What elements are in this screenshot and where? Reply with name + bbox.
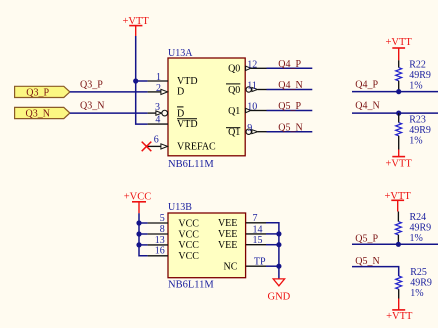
svg-text:49R9: 49R9 <box>409 125 431 136</box>
svg-text:Q4_P: Q4_P <box>278 59 301 70</box>
node pin15 <box>276 242 281 247</box>
svg-text:Q4_P: Q4_P <box>355 79 378 90</box>
svg-text:Q5_P: Q5_P <box>278 101 301 112</box>
svg-text:+VTT: +VTT <box>386 37 413 48</box>
svg-text:R22: R22 <box>409 59 426 70</box>
svg-text:VCC: VCC <box>178 240 199 251</box>
node TP <box>276 264 281 269</box>
node VCC/pin8 <box>136 231 141 236</box>
resistor R25 <box>396 267 432 299</box>
node VCC/pin5 <box>136 220 141 225</box>
wire pin8 branch <box>139 233 148 235</box>
svg-text:49R9: 49R9 <box>410 277 432 288</box>
pin 7 VEE <box>218 213 266 229</box>
pin 8 VCC <box>148 224 200 240</box>
wire VTT vertical <box>136 36 148 124</box>
power +VTT top-left <box>123 16 150 36</box>
wire pin15 stub <box>266 244 279 246</box>
svg-text:13: 13 <box>155 235 165 246</box>
svg-text:10: 10 <box>247 102 257 113</box>
power +VTT below R25 <box>386 299 413 323</box>
svg-text:14: 14 <box>253 224 263 235</box>
resistor R23 <box>396 113 431 149</box>
node R24/Q5_P <box>396 242 401 247</box>
node R23/Q4_N <box>396 111 401 116</box>
node R22/Q4_P <box>396 89 401 94</box>
op-amp U13A body <box>168 48 245 170</box>
svg-text:NC: NC <box>223 262 237 273</box>
svg-text:Q0: Q0 <box>228 85 240 96</box>
pin TP NC <box>223 256 266 272</box>
svg-text:11: 11 <box>247 81 257 92</box>
node junction VTT/pin1 <box>133 78 138 83</box>
svg-text:VCC: VCC <box>178 229 199 240</box>
svg-text:3: 3 <box>155 102 160 113</box>
svg-text:Q5_P: Q5_P <box>355 233 378 244</box>
svg-text:Q5_N: Q5_N <box>278 122 302 133</box>
pin 5 VCC <box>148 213 200 229</box>
svg-text:16: 16 <box>155 246 165 257</box>
svg-text:1%: 1% <box>410 288 423 299</box>
svg-text:+VTT: +VTT <box>386 311 413 322</box>
pin 13 VCC <box>148 235 200 251</box>
op-amp U13B body <box>168 202 246 290</box>
svg-text:VCC: VCC <box>178 251 199 262</box>
pin 12 Q0 <box>228 59 312 75</box>
svg-text:R24: R24 <box>410 212 427 223</box>
svg-text:49R9: 49R9 <box>410 223 432 234</box>
svg-text:6: 6 <box>154 134 159 145</box>
svg-text:Q5_N: Q5_N <box>355 256 379 267</box>
svg-text:VCC: VCC <box>178 218 199 229</box>
pin 9 Q1-bar <box>226 122 312 138</box>
svg-text:Q3_P: Q3_P <box>26 87 49 98</box>
resistor R24 <box>395 212 431 245</box>
svg-text:1%: 1% <box>409 80 422 91</box>
svg-text:49R9: 49R9 <box>409 70 431 81</box>
svg-text:VEE: VEE <box>218 218 237 229</box>
svg-text:8: 8 <box>160 224 165 235</box>
port Q3_N <box>15 107 70 119</box>
power +VCC <box>124 192 152 214</box>
svg-text:1: 1 <box>156 72 161 83</box>
svg-text:Q1: Q1 <box>228 106 240 117</box>
pin 15 VEE <box>218 235 266 251</box>
resistor R22 <box>396 59 431 91</box>
svg-text:Q3_N: Q3_N <box>80 101 104 112</box>
wire Q3_N <box>70 112 148 114</box>
svg-text:Q4_N: Q4_N <box>355 100 379 111</box>
svg-text:7: 7 <box>253 213 258 224</box>
port Q3_P <box>15 86 70 98</box>
svg-text:Q3_N: Q3_N <box>25 108 49 119</box>
wire Q4_P right <box>352 91 438 93</box>
svg-text:5: 5 <box>160 213 165 224</box>
wire pin13 branch <box>139 244 148 246</box>
wire VCC vertical <box>139 213 148 256</box>
svg-text:Q0: Q0 <box>228 64 240 75</box>
pin 16 VCC <box>148 246 200 262</box>
svg-text:VTD: VTD <box>177 119 198 130</box>
svg-text:VEE: VEE <box>218 240 237 251</box>
svg-text:D: D <box>177 108 184 119</box>
svg-text:12: 12 <box>247 59 257 70</box>
svg-text:VTD: VTD <box>177 76 198 87</box>
svg-text:TP: TP <box>254 256 266 267</box>
power +VTT above R22 <box>386 37 413 60</box>
wire pin5 branch <box>139 222 148 224</box>
wire Q3_P <box>70 91 148 93</box>
svg-text:U13B: U13B <box>168 202 192 213</box>
svg-text:15: 15 <box>253 235 263 246</box>
pin 1 VTD <box>148 72 198 87</box>
svg-text:Q4_N: Q4_N <box>278 80 302 91</box>
wire Q5_P right <box>352 243 438 245</box>
svg-text:+VCC: +VCC <box>124 192 152 203</box>
wire Q5_N right <box>352 267 399 276</box>
pin 10 Q1 <box>228 101 312 117</box>
node VCC/pin13 <box>136 242 141 247</box>
svg-text:+VTT: +VTT <box>386 158 413 169</box>
power +VTT below R23 <box>386 150 413 170</box>
wire VEE bus vertical <box>266 223 279 279</box>
svg-text:2: 2 <box>156 83 161 94</box>
svg-text:GND: GND <box>268 292 291 303</box>
pin 4 VTD-bar <box>148 114 198 130</box>
svg-text:R23: R23 <box>409 114 426 125</box>
svg-text:NB6L11M: NB6L11M <box>168 159 214 170</box>
svg-text:Q1: Q1 <box>228 127 240 138</box>
wire pin1 branch <box>136 80 148 82</box>
svg-text:9: 9 <box>247 123 252 134</box>
svg-text:NB6L11M: NB6L11M <box>168 279 214 290</box>
svg-text:1%: 1% <box>410 233 423 244</box>
svg-text:VEE: VEE <box>218 229 237 240</box>
wire Q4_N right <box>352 112 438 114</box>
svg-text:Q3_P: Q3_P <box>80 80 103 91</box>
svg-text:1%: 1% <box>409 136 422 147</box>
pin 2 D <box>148 83 185 98</box>
pin 6 VREFAC with no-connect X <box>142 134 216 152</box>
pin 11 Q0-bar <box>226 80 312 96</box>
pin 3 D-bar <box>148 102 185 119</box>
node pin14 <box>276 231 281 236</box>
wire pin14 stub <box>266 233 279 235</box>
svg-text:R25: R25 <box>410 267 427 278</box>
svg-text:VREFAC: VREFAC <box>177 141 216 152</box>
svg-text:4: 4 <box>155 114 160 125</box>
svg-text:D: D <box>177 87 184 98</box>
ground GND <box>268 279 291 303</box>
wire TP stub <box>266 265 279 267</box>
svg-text:U13A: U13A <box>168 48 193 59</box>
pin 14 VEE <box>218 224 266 240</box>
power +VTT above R24 <box>385 191 412 211</box>
